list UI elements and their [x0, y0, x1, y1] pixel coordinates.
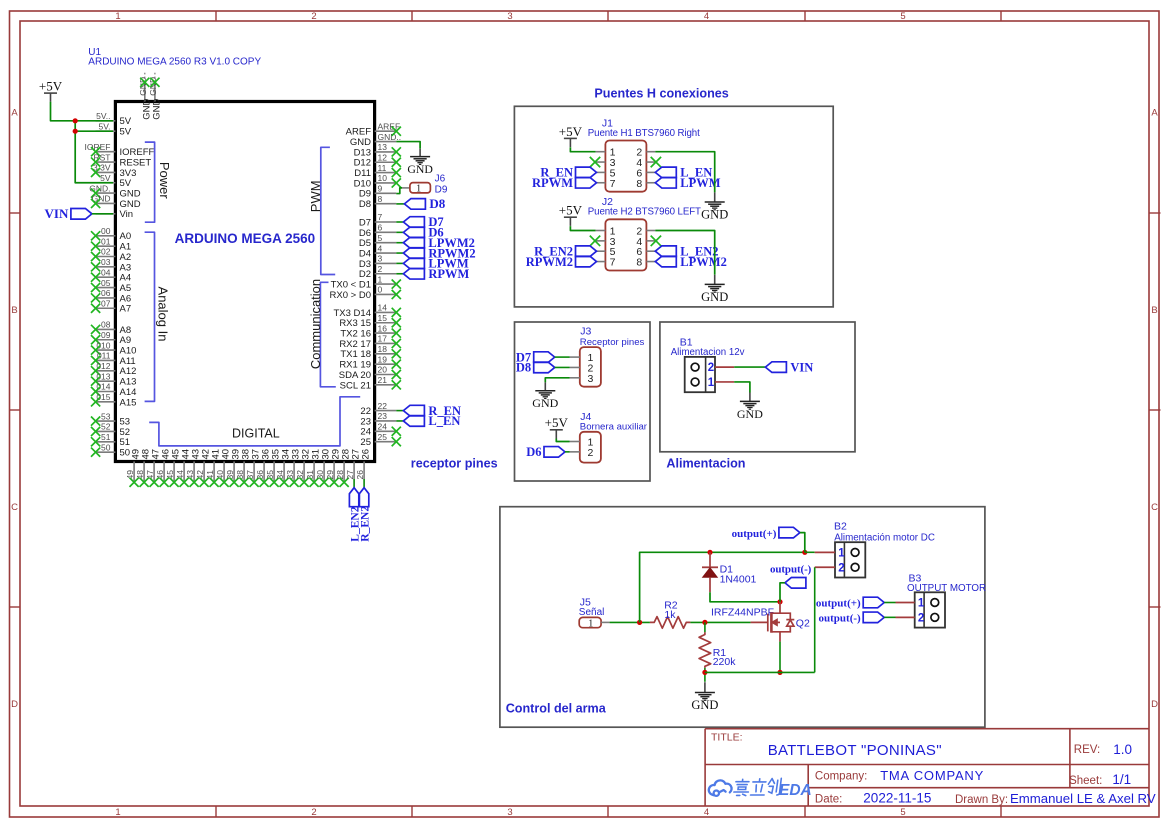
wire +5V to J4 pin1	[556, 439, 569, 442]
wire J3 pin3 to ground	[545, 378, 569, 383]
svg-text:Vin: Vin	[120, 209, 134, 220]
U1 right pin D5 y=243	[359, 233, 396, 249]
U1 left pin A15 y=402	[91, 392, 136, 408]
svg-text:DIGITAL: DIGITAL	[232, 427, 280, 441]
U1 right pin RX3 15 y=323	[339, 313, 396, 329]
svg-text:B: B	[11, 305, 17, 316]
connector B3 terminal block	[915, 592, 945, 627]
svg-text:9: 9	[378, 184, 383, 194]
svg-text:GND: GND	[152, 99, 163, 120]
svg-text:D9: D9	[435, 184, 448, 195]
net flag D8	[404, 196, 445, 211]
U1 left pin 3V3 y=172	[91, 163, 136, 179]
svg-text:D12: D12	[354, 158, 371, 169]
svg-text:Control del arma: Control del arma	[506, 702, 607, 716]
svg-text:Power: Power	[157, 162, 172, 200]
U1 bottom pin 43	[185, 449, 202, 487]
svg-text:24: 24	[360, 427, 371, 438]
svg-text:23: 23	[360, 416, 371, 427]
svg-text:Señal: Señal	[579, 607, 605, 618]
svg-text:AREF: AREF	[346, 127, 372, 138]
no-connect X right pin 19	[392, 360, 401, 369]
net flag L_EN2	[349, 488, 361, 542]
svg-text:11: 11	[378, 163, 387, 173]
svg-text:A7: A7	[120, 304, 132, 315]
svg-text:3V3: 3V3	[120, 168, 137, 179]
svg-text:8: 8	[636, 257, 642, 269]
svg-text:VIN: VIN	[45, 206, 69, 221]
wire top rail to B2 pin1	[805, 551, 835, 553]
net flag output(-) at B3	[819, 612, 885, 625]
ground at control box	[691, 682, 718, 712]
svg-text:8: 8	[636, 178, 642, 190]
svg-text:TX1 18: TX1 18	[340, 349, 371, 360]
U1 bottom pin 34	[275, 449, 292, 487]
wire U1 pin to D6 flag	[396, 231, 403, 233]
svg-text:output(-): output(-)	[770, 563, 812, 575]
svg-text:GND: GND	[737, 407, 763, 421]
no-connect X right pin 18	[392, 349, 401, 358]
wire +5V to U1 5V pins	[51, 102, 114, 183]
svg-text:14: 14	[378, 303, 388, 313]
U1 left pin 50 y=452	[91, 442, 130, 458]
no-connect X right pin 25	[392, 437, 401, 446]
svg-text:GND: GND	[407, 162, 433, 176]
wire U1 pin to L_EN flag	[396, 420, 403, 422]
wire top rail D1 to B2	[710, 551, 805, 553]
svg-text:3: 3	[587, 373, 593, 385]
connector J3 body	[570, 347, 601, 387]
wire U1 pin8 to D8 flag	[396, 203, 404, 205]
connector B3 designator	[907, 573, 986, 595]
svg-text:1: 1	[708, 377, 715, 389]
svg-text:2: 2	[587, 447, 593, 459]
svg-text:5V.: 5V.	[99, 121, 111, 131]
svg-text:08: 08	[101, 320, 111, 330]
junction at gate wire branch	[637, 620, 642, 625]
U1 bottom pin 49	[125, 449, 142, 487]
svg-text:ARDUINO MEGA 2560: ARDUINO MEGA 2560	[175, 231, 316, 246]
U1 left pin A1 y=246	[91, 236, 131, 252]
svg-text:5V: 5V	[120, 116, 132, 127]
U1 left pin A3 y=267	[91, 257, 131, 273]
svg-text:output(+): output(+)	[732, 528, 777, 540]
svg-text:3: 3	[378, 254, 383, 264]
U1 right pin D10 y=183	[354, 173, 397, 189]
net flag R_EN2 at J2 pin5	[534, 244, 596, 258]
wire D6 to J4 pin2	[565, 451, 570, 453]
svg-text:19: 19	[378, 354, 388, 364]
no-connect X J1 pin3	[590, 157, 600, 167]
svg-text:A4: A4	[120, 273, 132, 284]
U1 left pin 5V y=183	[96, 173, 132, 189]
wire U1 pin to D7 flag	[396, 221, 403, 223]
no-connect X right pin 1	[392, 280, 401, 289]
no-connect X J1 pin4	[651, 157, 661, 167]
svg-text:5: 5	[378, 233, 383, 243]
U1 bottom pin 26	[355, 449, 372, 480]
section box Alimentacion	[660, 322, 855, 452]
wire output(+) to B3 pin1	[884, 602, 915, 604]
svg-text:Analog In: Analog In	[156, 287, 171, 342]
U1 right pin 25 y=442	[360, 432, 396, 448]
U1 left pin A0 y=236	[91, 226, 131, 242]
junction Q2 drain node	[777, 599, 782, 604]
net flag D8 at J3	[516, 361, 555, 375]
wire Q2 source down	[779, 642, 781, 673]
U1 left pin A9 y=340	[91, 330, 131, 346]
connector J5 (1-pin)	[579, 617, 609, 629]
bracket Power	[145, 142, 172, 222]
op-amp U1 designator label	[88, 47, 261, 68]
junction source-bottom rail	[777, 670, 782, 675]
svg-text:5V: 5V	[120, 178, 132, 189]
diode D1 1N4001	[702, 552, 757, 592]
wire R1 bottom to ground node	[704, 668, 706, 682]
wire J2 pin2 to ground	[655, 231, 714, 275]
svg-text:01: 01	[101, 236, 111, 246]
U1 bottom pin 33	[285, 449, 302, 487]
svg-text:25: 25	[360, 437, 371, 448]
title block company row	[815, 768, 1131, 787]
svg-text:RPWM2: RPWM2	[526, 255, 573, 269]
svg-text:09: 09	[101, 330, 111, 340]
net flag L_EN	[403, 414, 460, 428]
net flag R_EN at J1 pin5	[540, 166, 596, 180]
wire D8 to J3 pin2	[555, 366, 570, 368]
svg-text:04: 04	[101, 267, 111, 277]
svg-text:1: 1	[378, 274, 383, 284]
U1 bottom pin 46	[155, 449, 172, 487]
svg-text:output(+): output(+)	[816, 598, 861, 610]
svg-text:1: 1	[416, 184, 421, 195]
svg-text:+5V: +5V	[39, 79, 63, 94]
connector J1 body	[596, 141, 656, 192]
svg-text:4: 4	[378, 243, 383, 253]
svg-text:RPWM: RPWM	[428, 267, 469, 281]
svg-text:A2: A2	[120, 252, 132, 263]
U1 right pin TX2 16 y=333	[340, 323, 396, 339]
svg-text:IRFZ44NPBF: IRFZ44NPBF	[711, 606, 774, 618]
net flag VIN at B1	[765, 360, 813, 374]
svg-text:15: 15	[378, 313, 388, 323]
U1 bottom pin 31	[305, 449, 322, 487]
U1 bottom pin 30	[315, 449, 332, 487]
connector J4 designator	[580, 411, 648, 432]
wire D7 to J3 pin1	[555, 356, 570, 358]
no-connect X J2 pin3	[590, 236, 600, 246]
U1 left pin 5V y=131	[96, 121, 132, 137]
svg-text:GND: GND	[120, 189, 141, 200]
net flag L_EN2 at J2 pin6	[655, 244, 718, 258]
U1 right pin TX0 < D1 y=284	[331, 274, 397, 290]
svg-text:2: 2	[708, 362, 714, 374]
U1 top pin GND 2	[148, 72, 162, 120]
svg-text:D8: D8	[359, 199, 371, 210]
U1 left pin IOREFF y=152	[85, 142, 155, 158]
U1 bottom pin 47	[145, 449, 162, 487]
chip U1 body ARDUINO MEGA 2560	[115, 102, 374, 462]
resistor R2	[650, 599, 691, 628]
svg-text:receptor pines: receptor pines	[411, 457, 498, 471]
svg-text:2: 2	[311, 807, 316, 818]
svg-text:D7: D7	[359, 217, 371, 228]
svg-text:D: D	[11, 699, 18, 710]
connector B1 terminal block	[685, 357, 715, 392]
svg-text:GND: GND	[350, 137, 371, 148]
svg-text:Drawn By:: Drawn By:	[955, 794, 1008, 806]
junction top of D1	[707, 550, 712, 555]
connector J4 body	[570, 432, 601, 463]
svg-text:1N4001: 1N4001	[720, 573, 757, 585]
svg-text:Q2: Q2	[796, 618, 810, 630]
svg-text:220k: 220k	[713, 656, 737, 668]
svg-text:Emmanuel LE & Axel RV: Emmanuel LE & Axel RV	[1010, 791, 1156, 806]
svg-text:5V: 5V	[100, 173, 111, 183]
svg-text:TMA COMPANY: TMA COMPANY	[880, 768, 984, 783]
U1 right pin D12 y=162	[354, 152, 397, 168]
U1 left pin GND y=193	[89, 183, 141, 199]
net flag D6	[403, 226, 443, 240]
svg-text:1/1: 1/1	[1112, 772, 1131, 787]
title block frame	[705, 729, 1149, 806]
no-connect X right pin 13	[392, 147, 401, 156]
svg-text:2: 2	[918, 612, 924, 624]
svg-text:B: B	[1151, 305, 1157, 316]
svg-text:4: 4	[704, 11, 709, 22]
connector B1 designator	[671, 336, 745, 358]
svg-text:013: 013	[96, 371, 110, 381]
wire B1 pin2 to VIN	[715, 366, 765, 368]
connector J1 designator	[588, 117, 700, 138]
svg-text:J6: J6	[435, 173, 446, 184]
net flag RPWM at J1 pin7	[532, 176, 596, 190]
U1 right pin D8 y=204	[359, 194, 396, 210]
svg-text:52: 52	[120, 427, 131, 438]
net flag LPWM at J1 pin8	[655, 176, 720, 190]
wire D1 to Q2 drain node	[710, 592, 780, 602]
svg-text:Date:: Date:	[815, 793, 843, 805]
U1 right pin SDA 20 y=374	[339, 365, 397, 381]
svg-text:1: 1	[115, 807, 120, 818]
connector B2 designator	[834, 520, 935, 543]
no-connect X right pin 10	[392, 178, 401, 187]
svg-text:20: 20	[378, 365, 388, 375]
svg-text:1: 1	[838, 548, 845, 560]
U1 left pin 5V y=121	[96, 111, 132, 127]
svg-text:GND: GND	[701, 290, 728, 304]
svg-text:REV:: REV:	[1074, 744, 1100, 756]
svg-text:50: 50	[120, 448, 131, 459]
svg-text:07: 07	[101, 298, 111, 308]
svg-text:014: 014	[96, 382, 110, 392]
junction on 5V rail 2	[73, 129, 78, 134]
U1 bottom pin 35	[265, 449, 282, 487]
U1 bottom pin 28	[335, 449, 352, 487]
U1 right pin D2 y=274	[359, 264, 396, 280]
connector J2 body	[596, 219, 656, 270]
svg-text:5: 5	[900, 11, 905, 22]
svg-text:A3: A3	[120, 262, 132, 273]
svg-text:RPWM: RPWM	[532, 176, 573, 190]
svg-text:5V..: 5V..	[96, 111, 110, 121]
U1 right pin AREF y=131	[346, 121, 401, 137]
svg-text:D10: D10	[354, 178, 371, 189]
power +5V at J1	[559, 124, 583, 147]
U1 bottom pin 45	[165, 449, 182, 487]
U1 right pin D7 y=222	[359, 212, 396, 228]
ground at B1	[737, 393, 763, 421]
svg-text:25: 25	[378, 432, 388, 442]
U1 right pin RX1 19 y=364	[339, 354, 396, 370]
svg-text:D8: D8	[516, 361, 531, 375]
svg-text:Puentes H conexiones: Puentes H conexiones	[594, 87, 728, 101]
svg-text:D2: D2	[359, 269, 371, 280]
wire U1 pin to RPWM2 flag	[396, 252, 403, 254]
svg-text:21: 21	[378, 375, 388, 385]
U1 right pin 24 y=431	[360, 422, 396, 438]
svg-text:A11: A11	[120, 356, 136, 367]
svg-text:26: 26	[361, 449, 372, 460]
svg-text:A10: A10	[120, 346, 137, 357]
svg-text:IOREFF: IOREFF	[120, 147, 155, 158]
svg-text:C: C	[1151, 502, 1158, 513]
wire +5V to J2 pin1	[570, 226, 595, 230]
ground at J1	[701, 192, 728, 221]
svg-text:A13: A13	[120, 377, 137, 388]
section box Control del arma	[500, 507, 985, 728]
U1 left pin 53 y=421	[91, 411, 130, 427]
wire branch up-left to top rail	[640, 552, 710, 622]
svg-text:output(-): output(-)	[819, 613, 862, 625]
U1 left pin A4 y=277	[91, 267, 131, 283]
wire J5 to R2	[610, 621, 650, 623]
wire R2 to Q2 gate	[690, 621, 750, 623]
wire output(-) to drain node	[780, 583, 785, 602]
no-connect X right pin 15	[392, 318, 401, 327]
U1 right pin D9 y=193	[359, 184, 396, 200]
svg-text:SCL 21: SCL 21	[340, 380, 371, 391]
svg-text:TX2 16: TX2 16	[340, 329, 371, 340]
svg-text:53: 53	[101, 411, 111, 421]
U1 right pin 23 y=421	[360, 411, 396, 427]
svg-text:5: 5	[900, 807, 905, 818]
svg-text:GND: GND	[701, 208, 728, 222]
net flag LPWM2 at J2 pin8	[655, 255, 727, 269]
svg-text:4: 4	[704, 807, 709, 818]
svg-text:A15: A15	[120, 397, 137, 408]
no-connect X right pin 14	[392, 308, 401, 317]
svg-text:SDA 20: SDA 20	[339, 370, 371, 381]
U1 left pin A10 y=350	[91, 340, 136, 356]
svg-text:R_EN2: R_EN2	[360, 506, 372, 542]
svg-text:26: 26	[355, 470, 365, 480]
connector J5 designator	[579, 597, 605, 619]
svg-text:D5: D5	[359, 238, 371, 249]
no-connect X right pin 0	[392, 290, 401, 299]
net flag R_EN2	[359, 488, 371, 542]
U1 right pin RX0 > D0 y=294	[330, 285, 397, 301]
U1 right pin SCL 21 y=385	[340, 375, 397, 391]
svg-text:D6: D6	[359, 228, 371, 239]
svg-text:ARDUINO MEGA 2560 R3 V1.0 COPY: ARDUINO MEGA 2560 R3 V1.0 COPY	[88, 57, 261, 68]
net flag LPWM	[403, 257, 468, 271]
no-connect X J2 pin4	[651, 236, 661, 246]
svg-text:3: 3	[507, 807, 512, 818]
svg-text:GND: GND	[120, 199, 141, 210]
net flag RPWM2	[403, 246, 475, 260]
wire output(+) to top rail	[800, 533, 805, 553]
U1 bottom pin 37	[245, 449, 262, 487]
net flag VIN at U1	[45, 206, 92, 221]
U1 left pin A13 y=381	[91, 371, 136, 387]
U1 left pin Vin y=214	[96, 209, 133, 220]
svg-text:3.3V: 3.3V	[93, 163, 111, 173]
bracket DIGITAL	[149, 397, 360, 446]
svg-text:22: 22	[378, 401, 388, 411]
svg-text:Communication: Communication	[308, 279, 323, 369]
U1 right pin D13 y=152	[354, 142, 397, 158]
wire U1 pin to R_EN flag	[396, 410, 403, 412]
svg-text:10: 10	[378, 173, 388, 183]
svg-text:8: 8	[378, 194, 383, 204]
U1 left pin A8 y=329	[91, 320, 131, 336]
wire B1 pin1 to ground	[715, 382, 750, 393]
net flag D6 at J4	[526, 445, 565, 459]
svg-text:27: 27	[345, 470, 355, 480]
wire U1 pin to LPWM2 flag	[396, 242, 403, 244]
U1 left pin A12 y=371	[91, 361, 136, 377]
svg-text:A0: A0	[120, 231, 132, 242]
svg-text:A6: A6	[120, 293, 132, 304]
U1 bottom pin 32	[295, 449, 312, 487]
svg-text:1.0: 1.0	[1113, 742, 1132, 757]
svg-text:PWM: PWM	[308, 180, 323, 212]
svg-text:1: 1	[588, 619, 593, 630]
svg-text:015: 015	[96, 392, 110, 402]
net flag R_EN	[403, 404, 461, 418]
wire +5V to J1 pin1	[570, 147, 595, 151]
connector J6 (1-pin)	[402, 173, 448, 195]
U1 left pin RESET y=162	[91, 152, 151, 168]
svg-text:D4: D4	[359, 248, 371, 259]
U1 left pin 52 y=431	[91, 422, 130, 438]
U1 left pin A14 y=392	[91, 382, 136, 398]
svg-text:Puente H1 BTS7960 Right: Puente H1 BTS7960 Right	[588, 128, 700, 139]
svg-text:EDA: EDA	[779, 782, 812, 799]
svg-text:D13: D13	[354, 147, 371, 158]
U1 right pin D11 y=173	[354, 163, 396, 179]
net flag output(-) upper	[770, 563, 812, 588]
no-connect X right pin 12	[392, 158, 401, 167]
svg-text:010: 010	[96, 340, 110, 350]
svg-text:51: 51	[101, 432, 111, 442]
svg-text:012: 012	[96, 361, 110, 371]
U1 top pin GND 1	[138, 72, 152, 120]
U1 left pin GND y=203	[91, 194, 141, 210]
junction R1 top node	[702, 620, 707, 625]
svg-text:TX3 D14: TX3 D14	[334, 308, 372, 319]
U1 left pin A5 y=288	[91, 278, 131, 294]
svg-text:RX2 17: RX2 17	[339, 339, 371, 350]
U1 bottom pin 36	[255, 449, 272, 487]
connector J3 designator	[580, 326, 645, 348]
bracket Communication	[308, 279, 336, 387]
wire pin27 to L_EN2 flag	[353, 479, 355, 488]
no-connect X right pin 17	[392, 339, 401, 348]
svg-text:06: 06	[101, 288, 111, 298]
no-connect X right AREF	[392, 127, 401, 136]
